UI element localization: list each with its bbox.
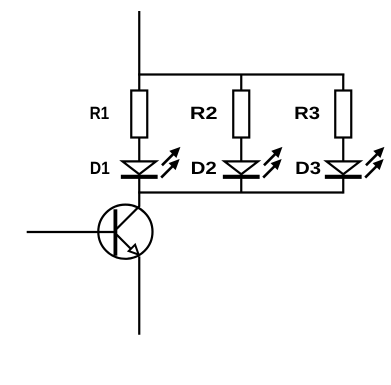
svg-text:R1: R1 (90, 103, 110, 123)
svg-text:D2: D2 (191, 158, 217, 178)
svg-text:R2: R2 (190, 103, 218, 123)
svg-text:D1: D1 (90, 158, 110, 178)
svg-text:R3: R3 (294, 103, 320, 123)
svg-text:D3: D3 (295, 158, 321, 178)
